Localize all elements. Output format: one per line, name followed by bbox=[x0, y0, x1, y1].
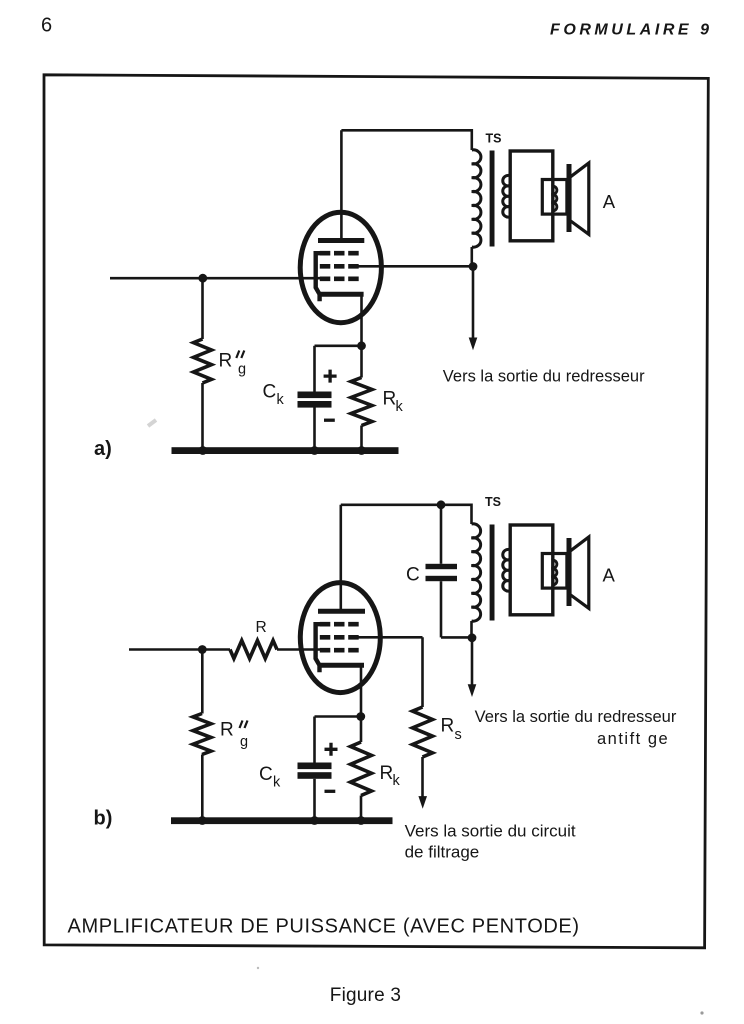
capacitor Ck plates b bbox=[298, 763, 332, 770]
tube V2 grid g2 b bbox=[320, 635, 360, 640]
wire Rs top b bbox=[421, 637, 424, 707]
speaker voice-coil box a bbox=[542, 180, 567, 215]
resistor Rk a bbox=[351, 378, 372, 426]
wire Rg branch a bottom bbox=[201, 383, 204, 448]
junction dot grid a bbox=[198, 274, 207, 283]
wire cathode junction horizontal b bbox=[315, 715, 362, 718]
tube V2 g3-cathode bracket b bbox=[316, 624, 321, 672]
svg-text:A: A bbox=[603, 564, 616, 585]
wire screen to B+ a bbox=[356, 265, 473, 268]
transformer TS primary a bbox=[472, 150, 481, 247]
wire Rs arrow shaft bbox=[421, 757, 424, 797]
tube V1 grid g3 a bbox=[320, 251, 360, 256]
svg-text:R: R bbox=[380, 763, 394, 784]
svg-text:R: R bbox=[220, 719, 234, 740]
svg-text:Vers la sortie du circuit: Vers la sortie du circuit bbox=[405, 822, 576, 841]
svg-text:C: C bbox=[406, 564, 420, 585]
transformer TS secondary a bbox=[503, 175, 510, 217]
plus sign b bbox=[325, 743, 338, 756]
ground dot Rk a bbox=[357, 446, 366, 455]
svg-text:antift ge: antift ge bbox=[597, 730, 669, 748]
tube V1 grid g1 a bbox=[320, 276, 360, 281]
svg-text:R: R bbox=[383, 389, 397, 410]
svg-text:g: g bbox=[240, 734, 248, 750]
speaker bar a bbox=[567, 164, 572, 232]
resistor Rs bbox=[413, 707, 433, 757]
wire C branch bottom b bbox=[440, 581, 443, 637]
capacitor Ck plates a bbox=[298, 392, 332, 399]
wire B+ arrow shaft b bbox=[471, 637, 474, 686]
tube V1 grid g2 a bbox=[320, 264, 360, 269]
tube V2 grid g3 b bbox=[320, 622, 360, 627]
svg-text:6: 6 bbox=[41, 15, 52, 37]
wire grid input b right bbox=[277, 648, 322, 651]
ground bus bar a bbox=[172, 447, 399, 454]
svg-text:k: k bbox=[277, 392, 285, 408]
resistor Rk b bbox=[351, 742, 372, 796]
svg-text:a): a) bbox=[94, 438, 112, 460]
resistor R series b bbox=[230, 641, 277, 659]
tube V2 cathode bar b bbox=[318, 663, 364, 668]
ground dot Rk b bbox=[357, 816, 366, 825]
svg-text:b): b) bbox=[94, 808, 113, 830]
capacitor C plates b bbox=[426, 564, 458, 569]
junction dot primary bottom b bbox=[468, 633, 477, 642]
secondary loop rectangle b bbox=[510, 525, 553, 615]
svg-text:TS: TS bbox=[485, 495, 501, 509]
tube V1 anode bar a bbox=[318, 238, 364, 243]
plus sign a bbox=[324, 370, 337, 383]
svg-text:R: R bbox=[441, 716, 455, 737]
speaker horn a bbox=[570, 163, 589, 234]
wire anode top a bbox=[341, 129, 471, 132]
wire Rk bottom b bbox=[360, 796, 363, 819]
speaker bar b bbox=[567, 538, 572, 606]
wire Rg branch b bottom bbox=[201, 755, 204, 819]
minus sign a bbox=[324, 419, 335, 422]
svg-text:de filtrage: de filtrage bbox=[405, 843, 480, 862]
svg-text:k: k bbox=[393, 773, 401, 789]
wire to primary a bbox=[470, 129, 473, 150]
svg-text:TS: TS bbox=[486, 131, 502, 145]
wire primary bottom a bbox=[470, 247, 473, 266]
wire Rk bottom a bbox=[360, 426, 363, 449]
svg-text:A: A bbox=[603, 191, 616, 212]
wire cathode lead b bbox=[360, 665, 363, 716]
wire primary bottom b bbox=[470, 621, 473, 637]
wire Rk top b bbox=[360, 717, 363, 743]
wire anode lead a bbox=[340, 130, 343, 240]
minus sign b bbox=[325, 790, 336, 793]
ground bus bar b bbox=[171, 817, 393, 824]
secondary loop rectangle a bbox=[510, 151, 553, 241]
svg-text:s: s bbox=[455, 727, 462, 743]
wire to primary b bbox=[470, 504, 473, 525]
arrow to rectifier a bbox=[469, 338, 478, 351]
tube V2 grid g1 b bbox=[320, 648, 360, 653]
ground dot Rg b bbox=[198, 816, 207, 825]
ground dot Ck a bbox=[310, 446, 319, 455]
transformer TS primary b bbox=[472, 524, 481, 621]
speaker horn b bbox=[570, 537, 589, 608]
wire grid input a bbox=[110, 277, 322, 280]
junction dot grid b bbox=[198, 645, 207, 654]
tube V1 g3-cathode bracket a bbox=[316, 253, 321, 301]
junction dot cathode b bbox=[356, 712, 365, 721]
transformer TS secondary b bbox=[503, 549, 510, 591]
tube V1 envelope a bbox=[300, 212, 381, 322]
junction dot cathode a bbox=[357, 341, 366, 350]
junction dot screen/B+ a bbox=[469, 262, 478, 271]
tube V2 envelope b bbox=[300, 583, 380, 693]
wire C to primary bottom b bbox=[441, 636, 472, 639]
svg-text:R: R bbox=[256, 619, 267, 636]
wire Rg branch a top bbox=[201, 278, 204, 339]
ground dot Ck b bbox=[310, 816, 319, 825]
wire Ck top a bbox=[313, 346, 316, 392]
wire B+ arrow shaft a bbox=[472, 266, 475, 339]
svg-text:R: R bbox=[219, 350, 233, 371]
wire grid input b left bbox=[129, 648, 230, 651]
speaker voice-coil turns b bbox=[552, 560, 557, 585]
ground dot Rg a bbox=[198, 446, 207, 455]
tube V1 cathode bar a bbox=[318, 292, 364, 297]
wire Ck bottom a bbox=[313, 408, 316, 449]
wire C branch top b bbox=[440, 505, 443, 564]
wire Ck bottom b bbox=[313, 779, 316, 818]
arrow to rectifier b bbox=[468, 684, 477, 697]
wire cathode lead a bbox=[360, 294, 363, 346]
svg-text:g: g bbox=[238, 362, 246, 378]
wire anode top b bbox=[341, 503, 472, 506]
svg-text:Figure 3: Figure 3 bbox=[330, 985, 401, 1006]
wire screen to Rs b bbox=[356, 636, 423, 639]
wire cathode junction horizontal a bbox=[315, 344, 362, 347]
tube V2 anode bar b bbox=[318, 609, 365, 614]
svg-text:Vers la sortie du redresseur: Vers la sortie du redresseur bbox=[443, 368, 645, 386]
junction dot anode/C b bbox=[437, 500, 446, 509]
svg-text:k: k bbox=[396, 399, 404, 415]
svg-text:C: C bbox=[263, 382, 277, 403]
svg-text:FORMULAIRE 9: FORMULAIRE 9 bbox=[550, 22, 713, 39]
speaker voice-coil box b bbox=[542, 554, 567, 589]
svg-text:Vers la sortie du redresseur: Vers la sortie du redresseur bbox=[475, 708, 677, 726]
svg-text:k: k bbox=[273, 775, 281, 791]
arrow to filter b bbox=[418, 796, 427, 809]
wire Ck top b bbox=[313, 717, 316, 763]
svg-text:AMPLIFICATEUR DE PUISSANCE (AV: AMPLIFICATEUR DE PUISSANCE (AVEC PENTODE… bbox=[68, 916, 580, 938]
outer border frame bbox=[44, 75, 708, 948]
wire Rg branch b top bbox=[201, 650, 204, 714]
resistor R''g a bbox=[194, 339, 212, 383]
speaker voice-coil turns a bbox=[552, 186, 557, 211]
transformer TS core a bbox=[490, 151, 495, 247]
transformer TS core b bbox=[490, 525, 495, 621]
wire anode lead b bbox=[339, 505, 342, 611]
svg-text:C: C bbox=[259, 764, 273, 785]
wire Rk top a bbox=[360, 346, 363, 378]
resistor R''g b bbox=[193, 714, 211, 755]
